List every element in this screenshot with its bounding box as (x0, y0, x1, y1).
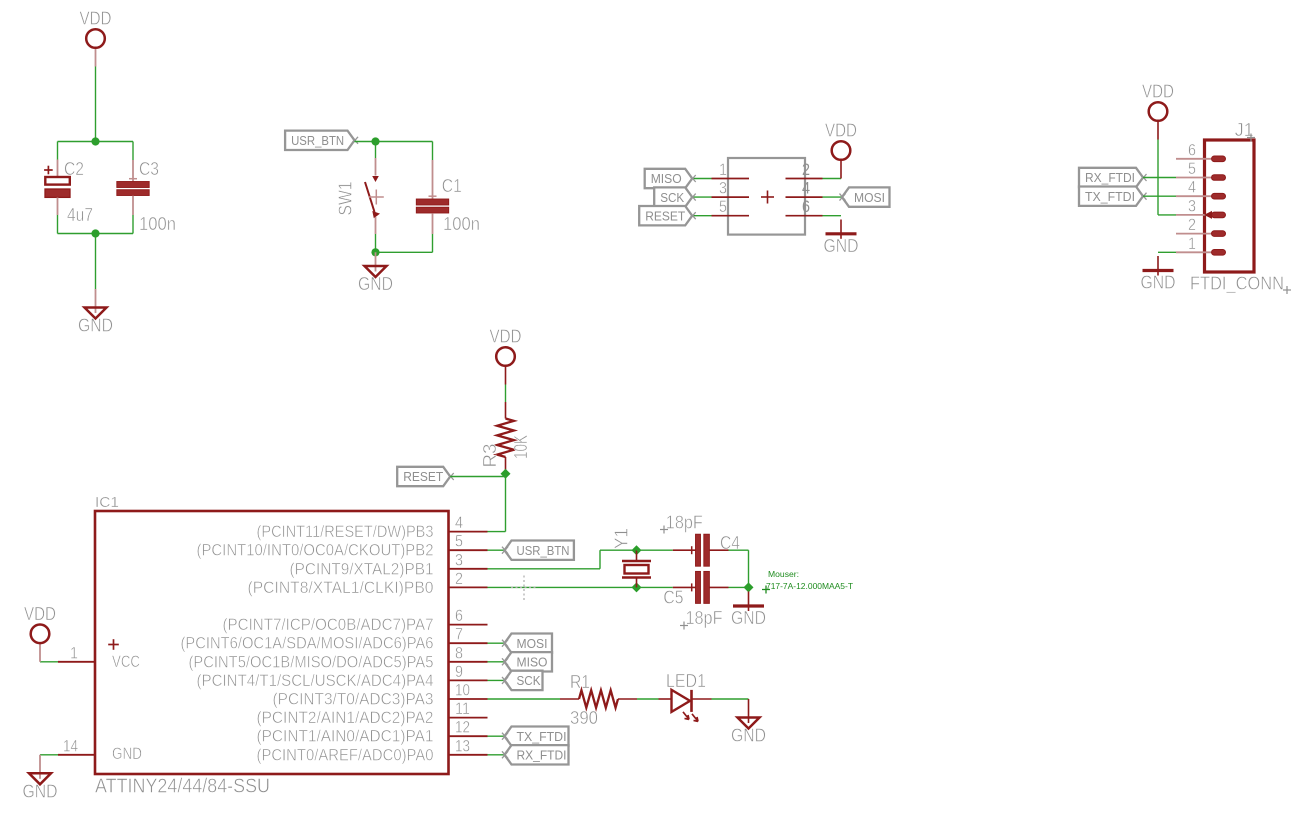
svg-text:(PCINT4/T1/SCL/USCK/ADC4)PA4: (PCINT4/T1/SCL/USCK/ADC4)PA4 (197, 672, 434, 690)
svg-text:VDD: VDD (24, 604, 56, 624)
svg-text:390: 390 (570, 708, 598, 728)
svg-text:7: 7 (455, 626, 463, 644)
svg-text:4: 4 (1188, 179, 1196, 197)
svg-text:(PCINT0/AREF/ADC0)PA0: (PCINT0/AREF/ADC0)PA0 (257, 746, 434, 764)
svg-text:18pF: 18pF (686, 608, 723, 628)
svg-text:5: 5 (719, 198, 727, 216)
svg-text:MOSI: MOSI (854, 190, 885, 205)
svg-text:(PCINT10/INT0/OC0A/CKOUT)PB2: (PCINT10/INT0/OC0A/CKOUT)PB2 (197, 542, 434, 560)
svg-text:MISO: MISO (517, 655, 548, 670)
svg-text:(PCINT1/AIN0/ADC1)PA1: (PCINT1/AIN0/ADC1)PA1 (257, 728, 434, 746)
svg-text:R3: R3 (480, 444, 500, 468)
svg-text:717-7A-12.000MAA5-T: 717-7A-12.000MAA5-T (766, 582, 853, 591)
svg-text:100n: 100n (139, 214, 176, 234)
svg-text:9: 9 (455, 663, 463, 681)
svg-text:6: 6 (455, 607, 463, 625)
svg-text:VDD: VDD (825, 121, 857, 141)
svg-text:RESET: RESET (645, 208, 685, 223)
svg-text:LED1: LED1 (666, 671, 706, 691)
svg-text:11: 11 (455, 700, 470, 718)
svg-text:(PCINT3/T0/ADC3)PA3: (PCINT3/T0/ADC3)PA3 (273, 691, 434, 709)
svg-text:ATTINY24/44/84-SSU: ATTINY24/44/84-SSU (95, 776, 270, 798)
svg-text:2: 2 (802, 161, 810, 179)
svg-text:(PCINT11/RESET/DW)PB3: (PCINT11/RESET/DW)PB3 (257, 523, 434, 541)
svg-text:C3: C3 (139, 159, 159, 179)
svg-text:(PCINT5/OC1B/MISO/DO/ADC5)PA5: (PCINT5/OC1B/MISO/DO/ADC5)PA5 (189, 653, 434, 671)
svg-text:RX_FTDI: RX_FTDI (517, 748, 567, 763)
svg-text:VDD: VDD (80, 9, 112, 29)
svg-text:GND: GND (824, 236, 859, 256)
svg-text:4u7: 4u7 (67, 205, 93, 225)
svg-text:100n: 100n (443, 214, 480, 234)
svg-text:C5: C5 (663, 587, 683, 607)
svg-text:1: 1 (719, 161, 727, 179)
svg-text:SCK: SCK (517, 673, 541, 688)
svg-text:GND: GND (112, 745, 142, 763)
svg-text:SW1: SW1 (336, 182, 356, 216)
svg-text:6: 6 (1188, 141, 1196, 159)
svg-text:(PCINT2/AIN1/ADC2)PA2: (PCINT2/AIN1/ADC2)PA2 (257, 709, 434, 727)
svg-text:12: 12 (455, 719, 470, 737)
svg-text:Y1: Y1 (612, 528, 632, 549)
svg-text:3: 3 (1188, 197, 1196, 215)
svg-text:GND: GND (731, 608, 766, 628)
svg-text:10: 10 (455, 682, 470, 700)
svg-text:2: 2 (455, 570, 463, 588)
svg-text:2: 2 (1188, 216, 1196, 234)
svg-text:RESET: RESET (403, 469, 443, 484)
svg-text:USR_BTN: USR_BTN (291, 133, 344, 148)
svg-text:R1: R1 (570, 672, 590, 692)
svg-text:1: 1 (1188, 235, 1196, 253)
svg-text:FTDI_CONN: FTDI_CONN (1190, 274, 1284, 295)
svg-text:GND: GND (731, 726, 766, 746)
svg-text:(PCINT6/OC1A/SDA/MOSI/ADC6)PA6: (PCINT6/OC1A/SDA/MOSI/ADC6)PA6 (181, 635, 434, 653)
svg-text:5: 5 (455, 533, 463, 551)
svg-text:GND: GND (23, 781, 58, 801)
svg-text:10K: 10K (511, 435, 531, 459)
svg-text:3: 3 (719, 180, 727, 198)
svg-text:USR_BTN: USR_BTN (517, 543, 570, 558)
svg-text:18pF: 18pF (666, 512, 703, 532)
svg-text:MISO: MISO (651, 171, 682, 186)
svg-text:8: 8 (455, 644, 463, 662)
svg-text:5: 5 (1188, 160, 1196, 178)
svg-text:IC1: IC1 (95, 494, 119, 511)
svg-text:C1: C1 (442, 176, 462, 196)
svg-text:VDD: VDD (490, 327, 522, 347)
svg-text:3: 3 (455, 551, 463, 569)
svg-text:(PCINT8/XTAL1/CLKI)PB0: (PCINT8/XTAL1/CLKI)PB0 (248, 579, 434, 597)
svg-text:4: 4 (802, 180, 810, 198)
svg-text:Mouser:: Mouser: (768, 570, 799, 579)
svg-text:GND: GND (78, 316, 113, 336)
svg-text:6: 6 (802, 198, 810, 216)
svg-text:13: 13 (455, 737, 470, 755)
svg-text:(PCINT7/ICP/OC0B/ADC7)PA7: (PCINT7/ICP/OC0B/ADC7)PA7 (223, 616, 434, 634)
svg-text:C4: C4 (720, 533, 740, 553)
svg-text:SCK: SCK (660, 190, 684, 205)
svg-text:1: 1 (70, 644, 78, 662)
svg-text:(PCINT9/XTAL2)PB1: (PCINT9/XTAL2)PB1 (290, 560, 434, 578)
svg-text:MOSI: MOSI (517, 636, 548, 651)
svg-text:C2: C2 (64, 159, 84, 179)
svg-text:GND: GND (358, 274, 393, 294)
svg-text:VCC: VCC (112, 653, 140, 671)
svg-text:RX_FTDI: RX_FTDI (1085, 170, 1135, 185)
svg-text:TX_FTDI: TX_FTDI (1085, 189, 1135, 204)
svg-text:GND: GND (1141, 273, 1176, 293)
svg-text:VDD: VDD (1142, 82, 1174, 102)
svg-text:TX_FTDI: TX_FTDI (517, 729, 567, 744)
svg-text:4: 4 (455, 514, 463, 532)
svg-text:14: 14 (63, 737, 78, 755)
